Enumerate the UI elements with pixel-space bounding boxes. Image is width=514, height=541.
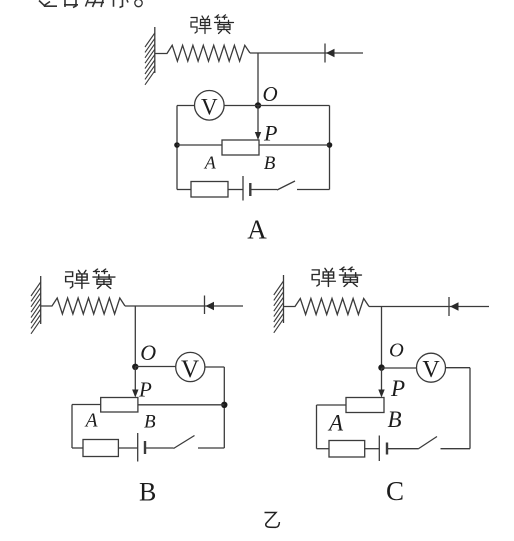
rheostat body R3 (circuit B) (101, 398, 138, 413)
wire: node O to voltmeter (circuit B) (135, 366, 175, 368)
svg-text:O: O (263, 82, 278, 106)
label 弹簧 (circuit A) (191, 15, 234, 34)
svg-text:B: B (139, 477, 156, 506)
left rail (circuit B) (71, 405, 73, 449)
battery BT2 short plate (circuit B) (144, 441, 146, 454)
switch S3 blade (circuit C) (418, 437, 437, 450)
node O dot (circuit C) (378, 364, 384, 370)
wire: resistor to battery (circuit C) (365, 448, 380, 450)
svg-text:A: A (327, 411, 344, 436)
wiper wire from O down (circuit C) (381, 368, 383, 392)
node O dot (circuit B) (132, 364, 138, 370)
wire: rheostat left to left rail (circuit C) (317, 404, 347, 406)
clipped text line (top edge, bottoms of characters) (39, 0, 142, 7)
wall anchor (circuit C) (274, 275, 284, 333)
wire: left rail to resistor (circuit C) (317, 448, 330, 450)
junction dot left (circuit A) (174, 142, 180, 148)
wire: rod from spring down to node O (circuit A) (257, 53, 259, 106)
left rail (circuit C) (316, 405, 318, 449)
wire: switch to right rail (circuit B) (198, 447, 224, 449)
svg-text:O: O (140, 340, 156, 365)
resistor R4 (circuit B) (83, 440, 118, 457)
wire: left rail to rheostat (circuit A) (177, 144, 222, 146)
battery BT1 short plate (circuit A) (249, 183, 251, 196)
wire: battery to switch (circuit A) (250, 189, 277, 191)
svg-text:A: A (204, 153, 217, 173)
node O dot (circuit A) (255, 102, 261, 108)
wire: rod down to node O (circuit B) (134, 306, 136, 367)
wire: voltmeter to right rail (circuit B) (205, 366, 224, 368)
wall anchor (circuit B) (31, 276, 41, 334)
spring (circuit B) (41, 298, 125, 314)
svg-text:V: V (201, 94, 218, 119)
wiper arrow P (circuit B) (132, 390, 138, 398)
wire: node O to voltmeter (circuit C) (382, 367, 417, 369)
wiper wire from O down (circuit B) (134, 367, 136, 392)
wire: resistor to battery (circuit B) (118, 447, 137, 449)
svg-text:P: P (263, 121, 277, 146)
junction dot right (circuit A) (327, 142, 333, 148)
label 弹簧 (circuit C) (312, 267, 361, 286)
spring (circuit C) (284, 299, 370, 315)
battery BT3 short plate (circuit C) (386, 443, 388, 455)
svg-text:P: P (390, 376, 405, 401)
wire: rheostat right to right rail (circuit B) (138, 404, 224, 406)
svg-text:A: A (247, 215, 267, 245)
wire: spring end to right (circuit A) (250, 52, 363, 54)
wire: voltmeter to right rail (circuit C) (446, 367, 471, 369)
voltmeter U1 circle (circuit A) (195, 91, 225, 121)
wire: rod down to node O (circuit C) (381, 307, 383, 369)
wiper arrow P (circuit A) (255, 132, 261, 140)
right rail (circuit A) (329, 106, 331, 190)
wire: rheostat left to left rail (circuit B) (72, 404, 101, 406)
spring (circuit A) (155, 45, 250, 61)
switch S1 blade (circuit A) (277, 181, 295, 190)
battery BT2 long plate (circuit B) (137, 433, 139, 462)
pointer tick (circuit C) (448, 297, 450, 316)
wire: rheostat to right rail (circuit A) (259, 144, 330, 146)
wire: voltmeter right to node O and right rail (circuit A) (224, 105, 329, 107)
svg-text:B: B (387, 407, 401, 432)
svg-text:A: A (84, 411, 98, 432)
resistor R2 (circuit A) (191, 182, 228, 198)
voltmeter U2 circle (circuit B) (176, 352, 205, 381)
wire: battery to switch (circuit B) (145, 447, 174, 449)
wall anchor (circuit A) (145, 27, 155, 85)
wire: voltmeter left to left rail (circuit A) (177, 105, 195, 107)
wiper wire from O down (circuit A) (257, 106, 259, 135)
arrow head pointing left (circuit A) (326, 49, 335, 58)
left rail (circuit A) (176, 106, 178, 190)
caption 乙 (figure label) (265, 513, 280, 528)
wire: resistor to battery (circuit A) (228, 189, 243, 191)
svg-text:V: V (422, 357, 440, 383)
svg-text:O: O (389, 340, 404, 362)
voltmeter U3 circle (circuit C) (417, 353, 446, 382)
wire: switch to right rail (circuit C) (441, 448, 471, 450)
svg-text:C: C (386, 476, 404, 506)
svg-text:B: B (264, 153, 276, 174)
wire: battery to switch (circuit C) (387, 448, 418, 450)
wire: spring end to right (circuit C) (369, 306, 489, 308)
right rail (circuit C) (469, 368, 471, 449)
switch S2 blade (circuit B) (174, 436, 195, 449)
wire: switch to right rail (circuit A) (297, 189, 330, 191)
wire: spring end to right (circuit B) (125, 305, 243, 307)
arrow head pointing left (circuit B) (206, 302, 215, 311)
battery BT3 long plate (circuit C) (378, 436, 380, 462)
arrow head pointing left (circuit C) (450, 302, 459, 311)
junction dot right rail (circuit B) (221, 402, 227, 408)
svg-text:B: B (144, 411, 156, 432)
wire: left rail to resistor (circuit B) (72, 447, 83, 449)
battery BT1 long plate (circuit A) (242, 176, 244, 201)
label 弹簧 (circuit B) (66, 269, 115, 288)
pointer tick (circuit A) (324, 44, 326, 63)
right rail (circuit B) (223, 367, 225, 448)
pointer tick (circuit B) (204, 296, 206, 315)
resistor R6 (circuit C) (329, 441, 365, 458)
wiper arrow P (circuit C) (378, 390, 384, 398)
svg-text:P: P (138, 377, 152, 401)
rheostat body R5 (circuit C) (346, 398, 384, 413)
rheostat body R1 (circuit A) (222, 140, 259, 155)
wire: left rail to resistor (circuit A) (177, 189, 191, 191)
svg-text:V: V (181, 356, 199, 383)
